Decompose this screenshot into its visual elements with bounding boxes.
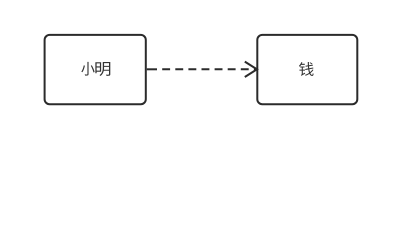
arrowhead bbox=[245, 62, 257, 77]
label 钱 bbox=[299, 62, 314, 76]
node 钱 (right rounded box) bbox=[257, 35, 357, 104]
wire: dashed connector first dash bbox=[147, 68, 157, 70]
wire: dashed connector bbox=[162, 68, 257, 70]
label 小明 bbox=[81, 62, 110, 76]
node 小明 (left rounded box) bbox=[45, 35, 146, 104]
